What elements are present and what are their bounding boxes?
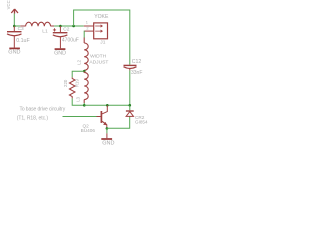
- J1 box: [94, 23, 108, 39]
- wire top loop to C12: [74, 10, 130, 65]
- supply symbol VCC: [11, 9, 18, 14]
- wire VCC to rail: [13, 14, 15, 26]
- ground (Q2): [101, 138, 112, 140]
- node junction diode/collector net: [129, 104, 132, 107]
- node junction C2/rail: [59, 25, 62, 28]
- pin stub L1 right: [51, 25, 55, 27]
- wire J1 pin2 to L2: [83, 31, 85, 37]
- svg-text:C12: C12: [132, 59, 142, 65]
- svg-text:33nF: 33nF: [131, 70, 142, 76]
- emitter lead: [102, 121, 107, 127]
- svg-text:GND: GND: [102, 140, 114, 146]
- svg-text:(T1, R18, etc.): (T1, R18, etc.): [17, 115, 49, 121]
- wire junction to R19: [72, 71, 84, 77]
- ground (C2): [55, 48, 66, 50]
- pin 1 arrow inside: [95, 25, 102, 27]
- svg-text:2: 2: [86, 26, 88, 31]
- svg-text:R19: R19: [75, 79, 80, 88]
- collector lead: [102, 105, 107, 114]
- resistor R19: [69, 77, 75, 98]
- wire base drive net: [63, 116, 97, 118]
- inductor L3 lower: [84, 71, 88, 103]
- svg-text:GI854: GI854: [135, 120, 148, 125]
- svg-text:ADJUST: ADJUST: [89, 60, 108, 66]
- ground (C3): [9, 47, 20, 49]
- emitter arrow: [103, 122, 107, 125]
- svg-text:1: 1: [86, 19, 88, 24]
- pin 2 lead: [84, 30, 93, 32]
- svg-text:GND: GND: [8, 50, 20, 56]
- svg-text:VCC: VCC: [6, 0, 11, 9]
- node junction VCC/C3/rail: [13, 25, 16, 28]
- wire emitter to ground: [106, 128, 108, 133]
- svg-text:L1: L1: [42, 28, 48, 34]
- svg-text:GND: GND: [54, 50, 66, 56]
- transistor Q2: [97, 105, 108, 127]
- pin stub L1 left: [20, 25, 25, 27]
- svg-text:C2: C2: [63, 26, 69, 32]
- inductor L1: [26, 22, 51, 26]
- wire collector net: [84, 104, 130, 106]
- node junction L3/R19/net: [83, 104, 86, 107]
- svg-text:4700uF: 4700uF: [62, 38, 79, 44]
- node junction L2/L3/R19: [83, 70, 86, 73]
- wire rail left segment: [14, 25, 20, 27]
- inductor L2 upper (width adjust): [84, 38, 88, 72]
- svg-text:L2: L2: [76, 59, 81, 64]
- svg-text:To base drive circuitry: To base drive circuitry: [20, 107, 66, 113]
- svg-text:220: 220: [63, 79, 68, 87]
- pin 1 lead: [84, 25, 94, 27]
- node junction Q2 collector: [106, 104, 109, 107]
- node junction Q2 emitter: [106, 127, 109, 130]
- svg-text:J1: J1: [100, 40, 105, 46]
- pin 2 arrow inside: [95, 30, 102, 32]
- svg-text:C3: C3: [18, 26, 24, 32]
- wire C12 to collector net: [129, 70, 131, 105]
- diode CR2: [129, 105, 131, 110]
- capacitor C2 polarized: [53, 26, 68, 48]
- wire emitter to diode bottom: [107, 116, 130, 128]
- wire R19 bottom to net: [72, 98, 84, 105]
- svg-text:BU406: BU406: [81, 128, 96, 133]
- wire L3 bottom stub: [83, 103, 85, 105]
- node junction rail/top-loop: [72, 25, 75, 28]
- base lead: [97, 116, 101, 118]
- svg-text:YOKE: YOKE: [94, 14, 109, 20]
- svg-text:0.1uF: 0.1uF: [16, 38, 30, 44]
- capacitor C3: [7, 26, 22, 48]
- svg-text:L3: L3: [75, 96, 80, 101]
- svg-text:WIDTH: WIDTH: [90, 54, 106, 60]
- wire rail mid segment: [54, 25, 84, 27]
- base bar: [100, 111, 102, 123]
